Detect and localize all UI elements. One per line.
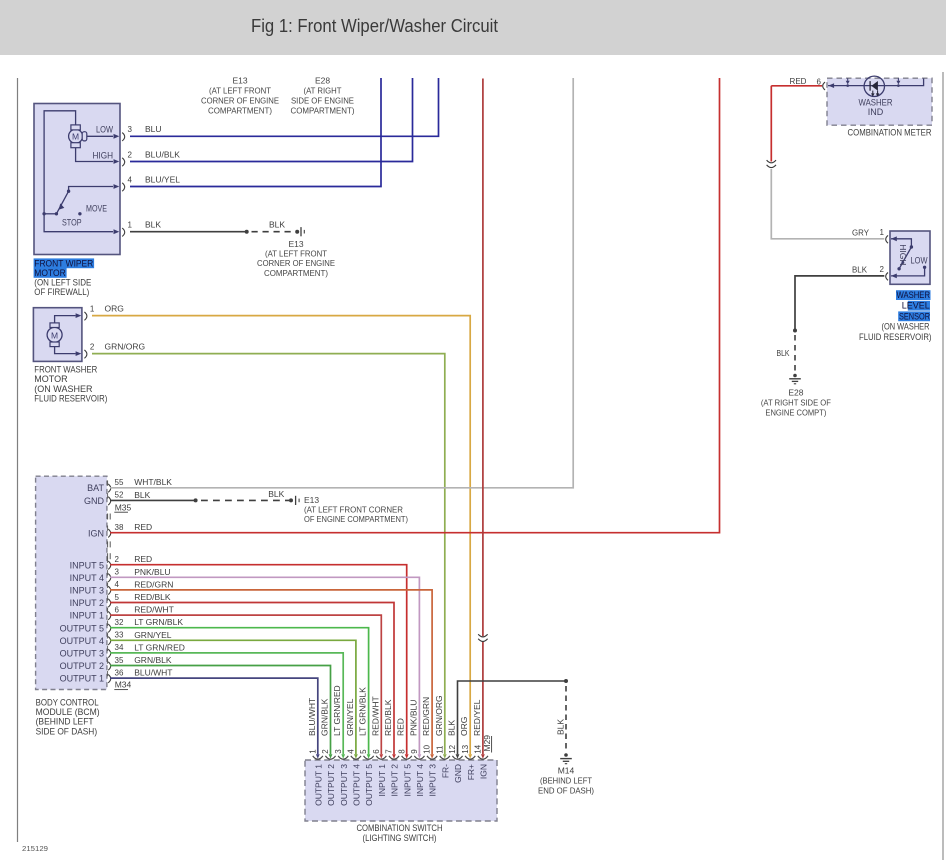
svg-text:2: 2 xyxy=(321,749,330,754)
svg-text:38: 38 xyxy=(115,523,124,532)
svg-text:SIDE OF ENGINE: SIDE OF ENGINE xyxy=(291,96,354,106)
svg-text:LEVEL: LEVEL xyxy=(902,301,930,311)
svg-text:GRN/BLK: GRN/BLK xyxy=(320,698,330,736)
svg-text:1: 1 xyxy=(90,304,95,313)
svg-text:BLK: BLK xyxy=(777,348,790,358)
svg-text:(BEHIND LEFT: (BEHIND LEFT xyxy=(540,776,592,786)
svg-text:SENSOR: SENSOR xyxy=(899,311,930,321)
svg-text:WASHER: WASHER xyxy=(897,290,931,300)
svg-text:RED: RED xyxy=(134,522,152,532)
svg-text:HIGH: HIGH xyxy=(93,150,114,160)
svg-text:8: 8 xyxy=(397,749,406,754)
svg-text:GRN/BLK: GRN/BLK xyxy=(134,655,172,665)
svg-text:PNK/BLU: PNK/BLU xyxy=(134,567,170,577)
svg-text:BLK: BLK xyxy=(145,220,161,230)
svg-text:END OF DASH): END OF DASH) xyxy=(538,786,594,796)
svg-text:MODULE (BCM): MODULE (BCM) xyxy=(36,707,100,717)
svg-text:(ON WASHER: (ON WASHER xyxy=(34,384,93,394)
svg-text:7: 7 xyxy=(385,749,394,754)
svg-text:RED/BLK: RED/BLK xyxy=(383,699,393,736)
svg-text:COMPARTMENT): COMPARTMENT) xyxy=(208,106,272,116)
svg-text:32: 32 xyxy=(115,618,124,627)
svg-text:11: 11 xyxy=(435,745,444,754)
svg-text:INPUT 3: INPUT 3 xyxy=(428,764,438,797)
svg-text:FLUID RESERVOIR): FLUID RESERVOIR) xyxy=(34,394,107,404)
svg-text:35: 35 xyxy=(115,656,124,665)
svg-text:(LIGHTING SWITCH): (LIGHTING SWITCH) xyxy=(363,833,437,843)
svg-text:LOW: LOW xyxy=(911,256,928,266)
svg-text:3: 3 xyxy=(115,568,120,577)
svg-text:33: 33 xyxy=(115,631,124,640)
svg-text:6: 6 xyxy=(817,77,822,86)
svg-text:OUTPUT 4: OUTPUT 4 xyxy=(352,764,362,806)
svg-text:RED/WHT: RED/WHT xyxy=(134,605,174,615)
svg-text:215129: 215129 xyxy=(22,844,48,853)
svg-text:RED/GRN: RED/GRN xyxy=(134,579,173,589)
svg-text:GRN/YEL: GRN/YEL xyxy=(134,630,172,640)
svg-text:(AT LEFT FRONT: (AT LEFT FRONT xyxy=(209,86,271,96)
svg-text:LT GRN/BLK: LT GRN/BLK xyxy=(358,687,368,736)
svg-text:WHT/BLK: WHT/BLK xyxy=(134,477,172,487)
svg-text:M: M xyxy=(51,330,58,340)
svg-text:(AT RIGHT: (AT RIGHT xyxy=(304,86,342,96)
svg-text:GND: GND xyxy=(453,764,463,783)
svg-text:M29: M29 xyxy=(482,735,492,752)
svg-text:FRONT WIPER: FRONT WIPER xyxy=(34,258,93,268)
svg-text:(AT RIGHT SIDE OF: (AT RIGHT SIDE OF xyxy=(761,398,831,408)
svg-text:2: 2 xyxy=(128,150,133,159)
svg-text:LT GRN/BLK: LT GRN/BLK xyxy=(134,617,183,627)
svg-text:OUTPUT 4: OUTPUT 4 xyxy=(60,636,104,646)
svg-text:BLK: BLK xyxy=(556,719,566,735)
svg-text:E13: E13 xyxy=(304,495,319,505)
svg-text:ORG: ORG xyxy=(105,303,124,313)
svg-text:IGN: IGN xyxy=(479,764,489,779)
svg-text:FRONT WASHER: FRONT WASHER xyxy=(34,365,97,375)
svg-text:MOVE: MOVE xyxy=(86,204,107,214)
svg-text:Fig 1: Front Wiper/Washer Circ: Fig 1: Front Wiper/Washer Circuit xyxy=(251,16,498,36)
svg-text:LT GRN/RED: LT GRN/RED xyxy=(332,685,342,736)
svg-text:4: 4 xyxy=(347,749,356,754)
svg-text:RED: RED xyxy=(790,76,807,86)
svg-text:BLU/WHT: BLU/WHT xyxy=(134,668,172,678)
svg-text:GRN/YEL: GRN/YEL xyxy=(345,698,355,736)
svg-text:BLU/BLK: BLU/BLK xyxy=(145,149,180,159)
svg-text:OUTPUT 5: OUTPUT 5 xyxy=(60,623,104,633)
svg-text:INPUT 4: INPUT 4 xyxy=(415,764,425,797)
svg-text:3: 3 xyxy=(334,749,343,754)
svg-text:RED/WHT: RED/WHT xyxy=(370,696,380,736)
svg-text:INPUT 1: INPUT 1 xyxy=(70,611,104,621)
svg-text:(AT LEFT FRONT CORNER: (AT LEFT FRONT CORNER xyxy=(304,504,403,514)
svg-text:1: 1 xyxy=(128,221,133,230)
svg-text:RED/BLK: RED/BLK xyxy=(134,592,171,602)
svg-text:ORG: ORG xyxy=(459,717,469,736)
svg-text:GRY: GRY xyxy=(852,227,869,237)
svg-text:FR+: FR+ xyxy=(466,764,476,780)
svg-text:(ON WASHER: (ON WASHER xyxy=(882,322,930,332)
svg-text:BAT: BAT xyxy=(87,483,104,493)
svg-text:BLK: BLK xyxy=(134,490,150,500)
svg-text:BODY CONTROL: BODY CONTROL xyxy=(36,698,99,708)
svg-text:COMBINATION SWITCH: COMBINATION SWITCH xyxy=(357,823,443,833)
svg-text:BLK: BLK xyxy=(269,220,285,230)
svg-text:SIDE OF DASH): SIDE OF DASH) xyxy=(36,726,98,736)
svg-text:FLUID RESERVOIR): FLUID RESERVOIR) xyxy=(859,332,932,342)
svg-text:1: 1 xyxy=(308,749,317,754)
svg-text:RED/GRN: RED/GRN xyxy=(421,697,431,736)
svg-text:4: 4 xyxy=(128,175,133,184)
svg-text:LOW: LOW xyxy=(96,125,113,135)
svg-text:52: 52 xyxy=(115,491,124,500)
svg-text:6: 6 xyxy=(372,749,381,754)
svg-text:OF FIREWALL): OF FIREWALL) xyxy=(34,287,89,297)
svg-text:RED: RED xyxy=(396,718,406,736)
svg-text:OUTPUT 2: OUTPUT 2 xyxy=(326,764,336,806)
svg-text:PNK/BLU: PNK/BLU xyxy=(408,700,418,736)
svg-text:COMPARTMENT): COMPARTMENT) xyxy=(264,268,328,278)
svg-text:FR-: FR- xyxy=(440,764,450,778)
svg-text:BLK: BLK xyxy=(268,489,284,499)
svg-text:BLK: BLK xyxy=(447,720,457,736)
svg-text:WASHER: WASHER xyxy=(859,97,893,107)
svg-text:BLU/YEL: BLU/YEL xyxy=(145,174,180,184)
svg-text:OUTPUT 3: OUTPUT 3 xyxy=(339,764,349,806)
svg-text:INPUT 3: INPUT 3 xyxy=(70,586,104,596)
svg-text:(ON LEFT SIDE: (ON LEFT SIDE xyxy=(34,277,91,287)
svg-text:INPUT 5: INPUT 5 xyxy=(70,560,104,570)
svg-text:RED: RED xyxy=(134,554,152,564)
svg-text:INPUT 2: INPUT 2 xyxy=(70,598,104,608)
svg-text:5: 5 xyxy=(359,749,368,754)
svg-text:M: M xyxy=(72,132,79,142)
svg-text:OUTPUT 1: OUTPUT 1 xyxy=(313,764,323,806)
svg-text:M35: M35 xyxy=(115,502,132,512)
svg-text:BLK: BLK xyxy=(852,264,867,274)
svg-text:IND: IND xyxy=(868,107,884,117)
svg-text:MOTOR: MOTOR xyxy=(34,374,68,384)
svg-text:CORNER OF ENGINE: CORNER OF ENGINE xyxy=(257,258,335,268)
svg-text:INPUT 5: INPUT 5 xyxy=(402,764,412,797)
svg-text:BLU: BLU xyxy=(145,124,162,134)
svg-text:2: 2 xyxy=(115,555,120,564)
svg-text:E28: E28 xyxy=(315,76,330,86)
svg-text:(AT LEFT FRONT: (AT LEFT FRONT xyxy=(265,249,327,259)
svg-text:M34: M34 xyxy=(115,680,132,690)
svg-text:LT GRN/RED: LT GRN/RED xyxy=(134,642,185,652)
svg-text:6: 6 xyxy=(115,605,120,614)
svg-text:OUTPUT 3: OUTPUT 3 xyxy=(60,649,104,659)
svg-text:OUTPUT 5: OUTPUT 5 xyxy=(364,764,374,806)
svg-text:3: 3 xyxy=(128,125,133,134)
svg-text:E28: E28 xyxy=(788,388,803,398)
svg-text:E13: E13 xyxy=(232,76,247,86)
svg-text:CORNER OF ENGINE: CORNER OF ENGINE xyxy=(201,96,279,106)
svg-text:GRN/ORG: GRN/ORG xyxy=(434,695,444,736)
svg-text:GRN/ORG: GRN/ORG xyxy=(105,341,146,351)
svg-text:ENGINE COMPT): ENGINE COMPT) xyxy=(765,408,826,418)
svg-text:12: 12 xyxy=(448,744,457,753)
svg-text:4: 4 xyxy=(115,580,120,589)
svg-text:OUTPUT 1: OUTPUT 1 xyxy=(60,674,104,684)
svg-text:M14: M14 xyxy=(558,766,575,776)
svg-text:34: 34 xyxy=(115,643,124,652)
svg-text:INPUT 2: INPUT 2 xyxy=(390,764,400,797)
svg-text:INPUT 4: INPUT 4 xyxy=(70,573,104,583)
svg-text:BLU/WHT: BLU/WHT xyxy=(307,698,317,736)
svg-text:36: 36 xyxy=(115,668,124,677)
svg-text:COMBINATION METER: COMBINATION METER xyxy=(848,127,932,137)
svg-text:5: 5 xyxy=(115,593,120,602)
svg-text:(BEHIND LEFT: (BEHIND LEFT xyxy=(36,717,94,727)
svg-text:COMPARTMENT): COMPARTMENT) xyxy=(291,106,355,116)
svg-text:1: 1 xyxy=(880,228,885,237)
svg-text:E13: E13 xyxy=(288,239,303,249)
svg-text:OUTPUT 2: OUTPUT 2 xyxy=(60,661,104,671)
svg-text:HIGH: HIGH xyxy=(898,244,908,265)
svg-text:MOTOR: MOTOR xyxy=(34,268,66,278)
svg-text:GND: GND xyxy=(84,496,105,506)
svg-text:IGN: IGN xyxy=(88,528,104,538)
svg-text:2: 2 xyxy=(90,342,95,351)
svg-text:55: 55 xyxy=(115,478,124,487)
svg-text:RED/YEL: RED/YEL xyxy=(472,699,482,736)
svg-text:10: 10 xyxy=(423,744,432,753)
svg-text:2: 2 xyxy=(880,265,885,274)
svg-text:13: 13 xyxy=(461,744,470,753)
svg-text:STOP: STOP xyxy=(62,217,82,227)
svg-text:INPUT 1: INPUT 1 xyxy=(377,764,387,797)
svg-text:9: 9 xyxy=(410,749,419,754)
svg-text:OF ENGINE COMPARTMENT): OF ENGINE COMPARTMENT) xyxy=(304,514,408,524)
